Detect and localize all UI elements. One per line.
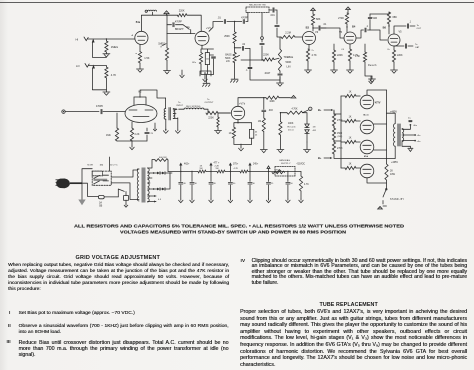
svg-text:.1: .1 xyxy=(409,21,412,24)
svg-text:(M): (M) xyxy=(100,164,104,166)
resistor 470K drive xyxy=(280,108,303,114)
svg-text:S T A N D - B Y: S T A N D - B Y xyxy=(390,198,404,201)
label To OUT xyxy=(417,25,422,30)
resistor R2 47K xyxy=(105,66,117,90)
V2 bottom bus xyxy=(117,140,147,146)
svg-text:+4 a: +4 a xyxy=(417,141,422,143)
resistor R3 220K xyxy=(177,10,187,17)
ground under V3 cathode xyxy=(305,61,312,73)
rectifier diode D4 xyxy=(154,173,170,190)
ground under treble xyxy=(277,77,284,86)
V1B cathode bus xyxy=(201,64,214,83)
svg-text:270K: 270K xyxy=(337,147,343,150)
T1 tap d xyxy=(148,188,156,190)
ground under C12 xyxy=(209,199,213,203)
svg-text:(5W): (5W) xyxy=(338,136,343,138)
svg-text:25: 25 xyxy=(271,183,274,185)
ground under 220K V5B xyxy=(391,62,398,73)
item IV xyxy=(241,259,246,264)
svg-text:68K: 68K xyxy=(316,18,321,21)
svg-text:MID-BOOST SW: MID-BOOST SW xyxy=(249,5,266,7)
resistor 68K mix xyxy=(370,12,397,24)
AC ground drop xyxy=(78,183,85,205)
warning triangle 4 xyxy=(346,7,351,10)
ground under 4.7K V5 xyxy=(347,61,354,73)
grid resistor 1K d xyxy=(341,164,360,170)
primary bottom lead xyxy=(387,146,399,164)
svg-text:4.7K: 4.7K xyxy=(304,184,309,186)
node marker +375 xyxy=(229,163,239,173)
svg-text:OUTPUT: OUTPUT xyxy=(205,102,215,104)
label B+ lower xyxy=(318,154,387,160)
resistor 220K tone xyxy=(263,54,279,62)
cathode resistor 4.7K V3 xyxy=(306,45,317,62)
slope wire xyxy=(241,59,263,61)
svg-text:.1: .1 xyxy=(246,70,249,72)
node B3 xyxy=(306,25,314,31)
grid resistor 1K c xyxy=(341,138,360,144)
resistor 2K 10W xyxy=(385,164,396,180)
switch bar xyxy=(94,179,108,181)
plate bus xyxy=(387,90,398,164)
small ground mark xyxy=(153,123,156,131)
standby switch xyxy=(383,180,404,204)
svg-text:600 5W: 600 5W xyxy=(159,157,167,159)
svg-text:100K: 100K xyxy=(269,101,275,103)
ground under C11 xyxy=(190,199,194,203)
svg-text:LIN: LIN xyxy=(287,66,291,69)
ground under C16 xyxy=(286,199,290,203)
svg-text:477 +: 477 + xyxy=(214,163,220,165)
cathode resistor 1.5K xyxy=(135,44,149,63)
svg-text:1MEG: 1MEG xyxy=(111,45,118,49)
cathode resistor 1.5K V5B xyxy=(355,44,367,62)
jack HI contact xyxy=(92,39,107,58)
V7 bypass cap 45/25 xyxy=(238,123,258,145)
svg-text:V5: V5 xyxy=(339,31,343,34)
output transformer T3 primary xyxy=(394,124,396,147)
svg-text:1K: 1K xyxy=(349,164,352,166)
item I xyxy=(9,311,10,316)
ground under diodes xyxy=(304,142,311,153)
svg-text:m: m xyxy=(135,53,137,55)
warning triangle 3 xyxy=(311,8,316,11)
svg-text:25: 25 xyxy=(151,133,154,135)
box top feed xyxy=(109,157,111,171)
coupling cap 52pF xyxy=(368,14,377,30)
circled node V xyxy=(303,107,312,113)
svg-text:245+: 245+ xyxy=(253,164,259,166)
bass pot 500K xyxy=(225,52,239,63)
power transformer T1 core xyxy=(142,168,146,203)
svg-text:45: 45 xyxy=(255,131,258,133)
notes line 2 xyxy=(120,229,347,235)
node marker +245 xyxy=(248,163,258,173)
svg-text:30: 30 xyxy=(195,183,198,185)
V2 top wires xyxy=(134,90,166,105)
T1 tap b xyxy=(148,177,153,179)
svg-text:5W: 5W xyxy=(200,168,203,170)
svg-text:B+: B+ xyxy=(318,108,322,112)
svg-text:2 a: 2 a xyxy=(408,118,411,120)
B+ rail xyxy=(168,171,301,173)
svg-text:.01: .01 xyxy=(217,16,221,19)
svg-text:C4: C4 xyxy=(341,49,345,51)
svg-text:4.7K: 4.7K xyxy=(111,73,117,77)
tube V2 (12AU7 driver) xyxy=(125,90,157,123)
svg-text:1: 1 xyxy=(166,12,167,14)
V7 cathode bus xyxy=(234,144,252,147)
heading TUBE REPLACEMENT xyxy=(320,302,378,308)
left intro paragraph xyxy=(8,263,229,293)
filter cap C14 xyxy=(248,172,256,200)
tube V5B xyxy=(388,31,402,47)
pot 100K reverb drive xyxy=(279,113,296,135)
node marker +477 xyxy=(209,163,220,173)
svg-text:1.5K: 1.5K xyxy=(144,56,150,60)
svg-text:BASS: BASS xyxy=(225,53,232,56)
label To INPUT xyxy=(177,102,184,107)
svg-text:375+: 375+ xyxy=(233,164,239,166)
ground under R1 xyxy=(103,52,110,57)
svg-text:+V7 b: +V7 b xyxy=(239,103,246,106)
resistor 2.2M xyxy=(275,26,302,39)
resistor 4.7K V5 cathode xyxy=(341,44,358,61)
filter cap C12 xyxy=(209,172,217,200)
svg-text:68K: 68K xyxy=(393,16,398,19)
T1 tap a xyxy=(148,172,156,174)
svg-text:2+: 2+ xyxy=(312,50,315,52)
input jack HI xyxy=(76,37,136,42)
svg-text:B4: B4 xyxy=(352,25,356,29)
bias cap C16 xyxy=(286,171,294,199)
tube V3 xyxy=(303,30,319,45)
svg-text:To: To xyxy=(178,102,181,104)
filter cap C13 xyxy=(228,172,236,200)
svg-text:477V: 477V xyxy=(375,102,381,105)
label 250K xyxy=(276,170,281,172)
output tap top xyxy=(402,124,411,129)
svg-text:100: 100 xyxy=(206,59,209,61)
tube V9 out xyxy=(360,164,386,183)
label 477V xyxy=(375,102,381,105)
tone node xyxy=(261,13,264,61)
ground T2 secondary xyxy=(175,130,180,134)
power transformer T1 primary xyxy=(137,169,139,201)
svg-text:500K: 500K xyxy=(286,61,292,64)
svg-text:1500: 1500 xyxy=(337,133,343,135)
AC cable xyxy=(70,182,82,184)
ground under V2 xyxy=(130,146,134,150)
svg-text:52M: 52M xyxy=(373,18,378,20)
ground under T2 xyxy=(163,130,168,134)
svg-text:250K: 250K xyxy=(224,35,230,38)
heading GRID VOLTAGE ADJUSTMENT xyxy=(76,255,161,261)
svg-text:+465V: +465V xyxy=(391,161,398,164)
resistor 1500 5W xyxy=(332,126,342,140)
coupling cap .01 xyxy=(209,16,235,31)
svg-text:B6: B6 xyxy=(383,26,387,30)
ground under 1.5K xyxy=(137,63,144,72)
resistor 68K stage3 xyxy=(311,11,320,25)
resistor 220K reverb return xyxy=(206,111,230,119)
ground under V7 xyxy=(239,147,244,151)
wire spring to grid xyxy=(204,109,208,113)
svg-text:500K: 500K xyxy=(225,58,231,60)
cap 470PF series xyxy=(235,13,249,24)
svg-text:A: A xyxy=(132,34,134,37)
ground mid3 xyxy=(180,70,184,78)
svg-text:1.5K: 1.5K xyxy=(355,55,360,58)
svg-text:S U P P L Y: S U P P L Y xyxy=(281,163,291,165)
node marker +462 xyxy=(179,163,190,173)
svg-text:4.70K: 4.70K xyxy=(291,108,297,110)
ground under 47K xyxy=(299,191,303,203)
svg-text:.02: .02 xyxy=(242,44,246,46)
notes line 1 xyxy=(74,223,405,229)
warning triangle A xyxy=(378,206,387,210)
svg-text:To: To xyxy=(415,44,418,46)
ground reverb node xyxy=(365,62,376,82)
svg-text:–52VDC: –52VDC xyxy=(296,163,305,166)
svg-text:B o t t: B o t t xyxy=(364,114,369,117)
svg-text:220K: 220K xyxy=(263,54,269,57)
svg-text:B1a: B1a xyxy=(136,22,141,24)
ground under bias cap xyxy=(266,199,270,203)
resistor R1 1MEG xyxy=(105,38,118,52)
V1B cathode wires xyxy=(201,45,214,52)
svg-text:B3: B3 xyxy=(306,26,310,30)
V7 grid leak xyxy=(215,113,222,134)
warning triangle 5 xyxy=(291,95,296,98)
svg-text:1N: 1N xyxy=(313,127,316,129)
fuse 3A SB xyxy=(98,195,118,207)
V7 plate wire xyxy=(238,97,266,106)
svg-text:D r i v e: D r i v e xyxy=(288,129,295,132)
svg-text:270K: 270K xyxy=(337,119,343,122)
ground under C10 xyxy=(179,199,183,203)
reverb spring xyxy=(179,106,204,109)
filter cap C10 xyxy=(179,172,187,200)
small cap right of box xyxy=(210,55,216,74)
svg-text:LIN: LIN xyxy=(226,61,230,63)
output cap lower xyxy=(394,44,420,49)
scan top edge line xyxy=(0,2,474,3)
svg-text:220K: 220K xyxy=(397,54,403,57)
treble pot 500K xyxy=(278,37,293,71)
series resistor 1K 5W xyxy=(198,166,206,173)
grid resistor 1K a xyxy=(341,92,360,98)
svg-text:1K: 1K xyxy=(349,117,352,119)
item III xyxy=(7,340,11,345)
filter cap C11 xyxy=(190,171,198,199)
svg-text:100K: 100K xyxy=(288,123,294,125)
svg-text:220K: 220K xyxy=(337,54,343,57)
svg-text:Sw: Sw xyxy=(187,27,191,29)
node B4 xyxy=(346,24,356,32)
svg-text:M i d: M i d xyxy=(364,156,369,158)
bright cap 470PF xyxy=(167,20,183,26)
svg-text:2.2M: 2.2M xyxy=(285,32,291,35)
cap .0047 xyxy=(264,71,282,83)
svg-text:N.GR: N.GR xyxy=(87,164,93,166)
jack LO contact xyxy=(92,65,106,90)
ground under 220K grid xyxy=(331,62,338,73)
diode D2 xyxy=(305,127,317,143)
output cap .1 upper xyxy=(394,21,415,35)
top rail right of R3 xyxy=(166,15,201,32)
resistor 220K V5B xyxy=(388,46,403,62)
svg-text:CAT: CAT xyxy=(415,46,420,49)
svg-text:.003: .003 xyxy=(268,110,273,112)
svg-text:LO: LO xyxy=(76,64,80,68)
svg-text:R e v e r b: R e v e r b xyxy=(288,125,297,128)
tube V6 out xyxy=(360,114,386,134)
ground under drive pot xyxy=(277,135,284,153)
switch to fuse xyxy=(118,189,124,197)
ground under 1M xyxy=(260,132,267,153)
svg-text:470PF: 470PF xyxy=(175,20,183,23)
switch contacts xyxy=(93,175,108,184)
svg-text:1K: 1K xyxy=(349,138,352,140)
wire 220K to V7 grid xyxy=(218,112,231,114)
tube replacement paragraph xyxy=(240,309,467,368)
label -52VDC xyxy=(296,163,305,166)
svg-text:INPUT: INPUT xyxy=(177,105,184,107)
output transformer T3 secondary xyxy=(402,128,404,141)
rectifier diode D3 xyxy=(154,172,170,175)
svg-text:BRIGHT: BRIGHT xyxy=(175,29,184,31)
svg-text:30: 30 xyxy=(253,183,256,185)
power transformer T1 secondary xyxy=(148,168,150,202)
plate wire V1A to top rail xyxy=(136,15,178,31)
svg-text:OUT: OUT xyxy=(417,28,422,30)
svg-text:4.7K: 4.7K xyxy=(234,168,239,170)
AC neutral wire xyxy=(82,183,98,196)
ground under C14 xyxy=(248,199,252,203)
svg-text:+8 a: +8 a xyxy=(417,135,422,137)
resistor 270K V5 plate xyxy=(338,10,348,24)
svg-text:5: 5 xyxy=(293,97,294,99)
ground under V1B cathode xyxy=(203,83,211,86)
item II xyxy=(8,324,11,329)
svg-text:Ω2 x: Ω2 x xyxy=(192,62,197,64)
tube V5A xyxy=(321,28,356,44)
svg-text:.0047: .0047 xyxy=(264,72,271,75)
diode D1 xyxy=(303,113,310,128)
input jack LO xyxy=(76,64,106,69)
bright branch wire xyxy=(166,15,168,33)
svg-text:25: 25 xyxy=(255,134,258,136)
ground under bass pot xyxy=(231,63,239,83)
svg-text:1K: 1K xyxy=(229,132,232,135)
bypass cap V2 xyxy=(145,128,154,141)
ground under volume pot xyxy=(164,60,171,74)
cap .01 stage3 xyxy=(313,23,327,30)
svg-text:B+: B+ xyxy=(318,156,322,160)
tube V1B xyxy=(195,26,212,46)
bias pot xyxy=(272,170,285,174)
svg-text:470PF: 470PF xyxy=(96,105,104,108)
resistor 220K grid V5 xyxy=(332,44,343,62)
cap .001 in mid-boost xyxy=(269,8,277,24)
tube V8 out xyxy=(360,140,386,158)
svg-text:50: 50 xyxy=(290,183,293,185)
label switch xyxy=(87,164,118,166)
grid resistor 1M V2 xyxy=(106,113,119,141)
svg-text:HI: HI xyxy=(76,38,79,42)
label To OUTPUT xyxy=(205,99,215,104)
cap .47/50 xyxy=(96,105,125,114)
bypass cap box 100 xyxy=(205,53,209,65)
output cap 2a xyxy=(408,118,418,128)
tube V1A xyxy=(132,31,148,44)
resistor 250K xyxy=(224,22,236,53)
feedback tap squiggle xyxy=(145,10,156,15)
mid-boost switch box xyxy=(246,5,269,13)
svg-text:2.2K: 2.2K xyxy=(215,165,220,167)
series resistor 4.7K rail xyxy=(240,170,248,173)
wire bias to grids xyxy=(334,114,341,141)
node tone chain xyxy=(234,21,235,22)
svg-text:462+: 462+ xyxy=(184,163,190,166)
cap .1 on drop xyxy=(246,67,280,80)
V7 cathode node xyxy=(237,120,238,124)
box to transformer xyxy=(111,169,137,200)
svg-text:40: 40 xyxy=(214,183,217,185)
primary top lead xyxy=(387,113,396,123)
svg-text:470PF: 470PF xyxy=(241,17,248,19)
ground under C13 xyxy=(228,199,232,203)
svg-text:220K: 220K xyxy=(208,117,214,120)
output tap mid xyxy=(402,134,421,137)
svg-text:1M: 1M xyxy=(258,121,261,123)
T1 tap top xyxy=(148,160,156,169)
svg-text:TREBLE: TREBLE xyxy=(284,56,294,59)
svg-text:ALL RESISTORS AND CAPACITORS 5: ALL RESISTORS AND CAPACITORS 5% TOLERANC… xyxy=(74,223,405,229)
svg-text:R E V. S P R I N G: R E V. S P R I N G xyxy=(186,106,201,108)
svg-text:60 C Y C: 60 C Y C xyxy=(110,164,118,166)
svg-text:4.5: 4.5 xyxy=(158,199,162,201)
grid bus output xyxy=(340,96,342,168)
svg-text:.001: .001 xyxy=(270,14,275,17)
svg-text:40 a: 40 a xyxy=(413,125,418,127)
tube V7 xyxy=(231,103,245,120)
svg-text:4.7K: 4.7K xyxy=(312,54,317,57)
node B6 xyxy=(383,24,390,34)
T1 tap c xyxy=(148,182,151,184)
aux input terminal xyxy=(62,110,99,113)
label reverb xyxy=(368,64,377,67)
svg-text:5W: 5W xyxy=(216,168,219,170)
svg-text:To: To xyxy=(207,99,210,101)
output tap low xyxy=(402,140,421,143)
svg-text:GRN B I A S: GRN B I A S xyxy=(279,159,291,162)
volume pot 1MEG-A xyxy=(158,34,168,61)
resistor 270K lower xyxy=(332,140,343,154)
V1B grid wire xyxy=(167,33,195,35)
svg-text:2.2K: 2.2K xyxy=(135,133,140,136)
label 600 5W xyxy=(159,157,167,159)
label B+ upper xyxy=(318,108,334,114)
svg-text:R e v e r b: R e v e r b xyxy=(368,64,377,67)
resistor 1M PI xyxy=(258,118,266,132)
power switch box xyxy=(92,171,111,185)
reverb transformer T2 secondary xyxy=(173,108,178,129)
svg-text:1K: 1K xyxy=(349,92,352,94)
cap .02 slope xyxy=(235,44,250,67)
ground mid xyxy=(200,71,211,82)
